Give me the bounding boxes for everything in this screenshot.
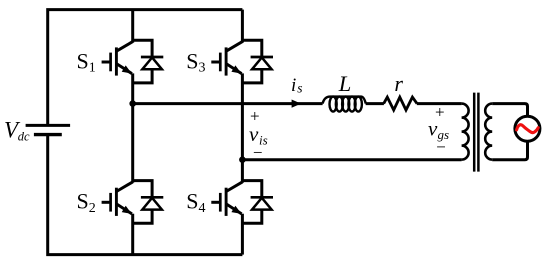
wire leg B upper (top rail to S3 collector): [241, 10, 244, 43]
resistor r: [384, 97, 417, 110]
battery Vdc long plate: [26, 124, 71, 127]
transistor S1 (IGBT): [102, 42, 133, 76]
wire leg A middle (S1 emitter through node A to S2 collector): [131, 73, 134, 182]
svg-text:−: −: [436, 137, 446, 156]
svg-text:i: i: [291, 75, 296, 96]
transformer core line 1: [473, 93, 476, 172]
wire leg A upper (top rail to S1 collector): [131, 10, 134, 43]
node A junction dot: [129, 100, 136, 107]
wire output upper segment 2 (inductor to resistor): [366, 102, 384, 105]
diode D3 (antiparallel with S3): [242, 40, 273, 83]
wire left rail lower (Vdc - to bottom rail): [48, 136, 243, 255]
battery Vdc short plate: [34, 133, 62, 136]
svg-text:1: 1: [89, 61, 96, 76]
svg-text:r: r: [394, 71, 403, 96]
AC source sine wave: [517, 125, 539, 133]
current arrow i_s: [292, 100, 301, 108]
transformer core line 2: [477, 93, 480, 172]
svg-text:4: 4: [199, 201, 206, 216]
svg-text:L: L: [338, 71, 352, 96]
wire leg B lower (S4 emitter to bottom rail): [241, 214, 244, 255]
wire leg B middle (S3 emitter through node B to S4 collector): [241, 73, 244, 182]
inductor L: [323, 97, 366, 112]
svg-text:−: −: [253, 143, 263, 162]
svg-text:s: s: [297, 81, 302, 96]
wire leg A lower (S2 emitter to bottom rail): [131, 214, 134, 255]
svg-text:2: 2: [89, 201, 96, 216]
svg-text:S: S: [77, 189, 89, 214]
diode D2 (antiparallel with S2): [133, 181, 164, 224]
wire output upper segment 3 (resistor to transformer primary top): [417, 102, 462, 105]
wire left rail upper (Vdc + to top rail): [48, 10, 243, 125]
svg-text:S: S: [186, 48, 198, 73]
svg-text:3: 3: [199, 61, 206, 76]
transformer secondary winding: [485, 104, 492, 160]
wire secondary top (to AC source): [492, 104, 527, 117]
wire output upper segment 1 (node A to inductor): [133, 102, 323, 105]
svg-text:S: S: [186, 189, 198, 214]
wire output lower (node B to transformer primary bottom): [242, 158, 461, 161]
transistor S2 (IGBT): [102, 182, 133, 216]
transistor S4 (IGBT): [211, 182, 242, 216]
AC source (grid) circle: [515, 116, 540, 141]
wire secondary bottom (from AC source): [492, 141, 527, 160]
diode D4 (antiparallel with S4): [242, 181, 273, 224]
svg-text:S: S: [77, 48, 89, 73]
svg-text:dc: dc: [18, 130, 30, 144]
transistor S3 (IGBT): [211, 42, 242, 76]
node B junction dot: [239, 156, 246, 163]
transformer primary winding: [462, 104, 469, 160]
diode D1 (antiparallel with S1): [133, 40, 164, 83]
